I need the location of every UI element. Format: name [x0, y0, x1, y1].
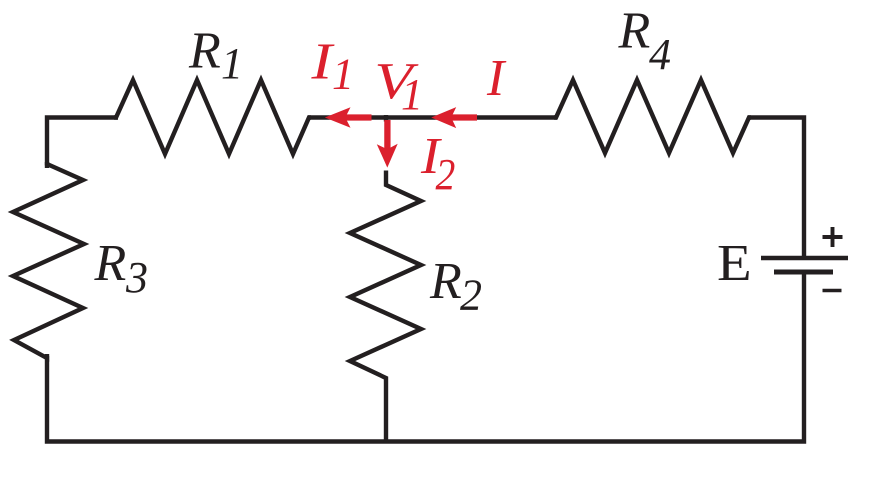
label V1 (red, node voltage) [374, 53, 423, 119]
svg-text:2: 2 [436, 151, 456, 199]
arrow I1 (branch current, pointing left) [325, 107, 372, 128]
arrow I (main current, pointing left) [431, 107, 477, 128]
svg-text:3: 3 [125, 253, 148, 302]
svg-text:R: R [618, 3, 651, 60]
svg-text:1: 1 [221, 39, 243, 88]
resistor R1 [114, 80, 311, 154]
battery E long plate (+) [761, 256, 848, 261]
svg-text:1: 1 [332, 50, 354, 99]
plus sign [823, 227, 843, 247]
battery E short plate (-) [774, 270, 833, 275]
wire top-right corner (R4 down to battery +) [748, 118, 804, 257]
wire top-middle (R1 to R4 through node V1) [308, 115, 557, 119]
svg-text:R: R [94, 235, 127, 292]
svg-text:1: 1 [401, 70, 423, 119]
svg-text:I: I [486, 50, 507, 107]
label I1 (red) [310, 33, 354, 98]
wire top-left corner (node A to R1, down to R3) [47, 118, 118, 169]
svg-text:E: E [717, 234, 752, 291]
label I2 (red) [420, 127, 455, 200]
svg-text:R: R [429, 253, 462, 310]
svg-text:R: R [188, 23, 221, 80]
resistor R3 [13, 162, 84, 358]
minus sign [823, 289, 842, 293]
label R1 [188, 23, 243, 89]
arrow I2 (branch current into R2, pointing down) [377, 120, 398, 168]
wire bottom loop (battery - , bottom return, up to R3) [47, 272, 804, 442]
label R4 [618, 3, 672, 80]
wire node stub (junction at V1 node) [384, 115, 388, 122]
resistor R2 [350, 171, 421, 444]
svg-text:2: 2 [460, 271, 482, 320]
label R2 [429, 253, 482, 320]
resistor R4 [554, 80, 751, 153]
label R3 [94, 235, 149, 302]
svg-text:4: 4 [649, 30, 671, 79]
